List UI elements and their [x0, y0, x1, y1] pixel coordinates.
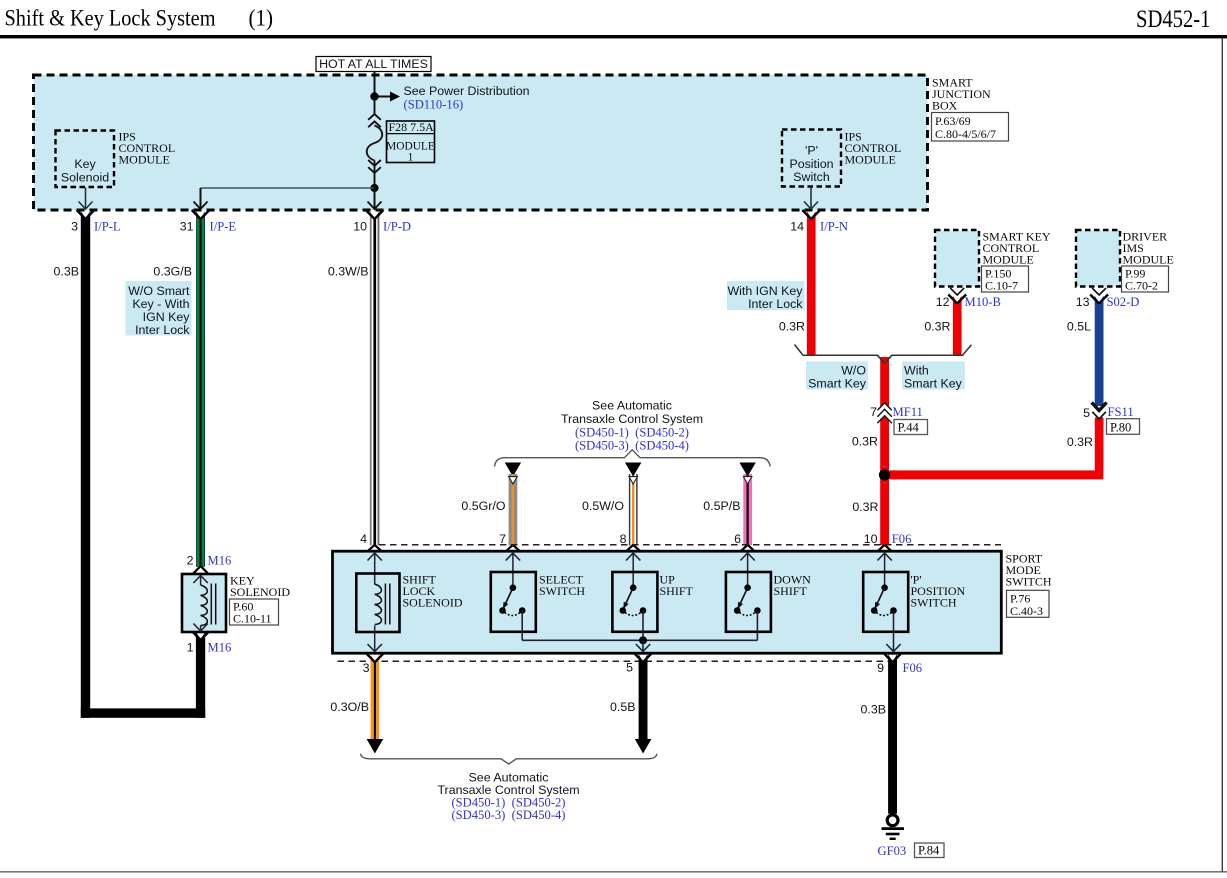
svg-text:0.5L: 0.5L [1067, 320, 1091, 334]
svg-text:0.3B: 0.3B [861, 703, 887, 717]
header rule [0, 35, 1227, 38]
svg-text:MODULE: MODULE [845, 153, 896, 167]
ground GF03 [882, 815, 905, 839]
pin 7 label MF11 [870, 405, 927, 435]
wire split bracket W/O-with smart key [795, 345, 972, 364]
svg-text:0.5B: 0.5B [610, 700, 636, 714]
svg-text:4: 4 [360, 532, 367, 546]
wire 0.3R I/P-N red [802, 210, 820, 356]
svg-text:Transaxle Control System: Transaxle Control System [561, 412, 703, 426]
svg-text:Inter Lock: Inter Lock [748, 297, 803, 311]
label DOWN SHIFT [774, 573, 812, 599]
connector FS11 chevrons [1092, 403, 1107, 420]
svg-text:SHIFT: SHIFT [774, 584, 808, 598]
svg-text:0.3R: 0.3R [924, 320, 950, 334]
svg-text:MF11: MF11 [893, 405, 923, 419]
label HOT AT ALL TIMES [316, 57, 431, 72]
key solenoid module (IPS) dashed box [56, 131, 115, 188]
connector MF11 chevrons [877, 403, 891, 423]
svg-text:MODULE: MODULE [983, 253, 1034, 267]
svg-text:14: 14 [790, 220, 804, 234]
svg-text:C.10-11: C.10-11 [233, 612, 272, 626]
svg-text:0.3R: 0.3R [779, 320, 805, 334]
svg-text:3: 3 [71, 220, 78, 234]
label fuse F28 7.5A MODULE 1 [386, 120, 435, 163]
chevron arrows into sport box top [368, 553, 892, 586]
svg-text:Inter Lock: Inter Lock [135, 323, 190, 337]
down shift switch component [726, 572, 771, 640]
svg-text:Switch: Switch [793, 170, 830, 184]
svg-text:Key - With: Key - With [132, 297, 189, 311]
wire 0.5P/B [739, 463, 755, 552]
sport mode switch box [333, 551, 1002, 653]
svg-text:BOX: BOX [932, 99, 958, 113]
wire hot feed vertical [374, 72, 376, 98]
svg-text:HOT AT ALL TIMES: HOT AT ALL TIMES [319, 57, 428, 71]
svg-text:6: 6 [734, 532, 741, 546]
svg-text:1: 1 [187, 641, 194, 655]
svg-text:Position: Position [789, 157, 833, 171]
svg-text:SD452-1: SD452-1 [1136, 6, 1211, 33]
svg-text:9: 9 [877, 661, 884, 675]
svg-text:3: 3 [363, 661, 370, 675]
svg-text:I/P-D: I/P-D [383, 220, 411, 234]
wire 0.5Gr/O [505, 463, 521, 552]
pin 31 label I/P-E [180, 220, 237, 234]
smart key control module box [935, 230, 1051, 293]
brace top transaxle [495, 450, 771, 467]
label With IGN Key Inter Lock [727, 281, 805, 311]
label With Smart Key [902, 362, 965, 391]
wire 0.3R FS11 vertical [1095, 418, 1104, 471]
node power junction [370, 92, 378, 100]
pin 3 label I/P-L [71, 220, 121, 234]
svg-text:Smart Key: Smart Key [808, 377, 867, 391]
svg-text:M16: M16 [208, 641, 232, 655]
svg-text:Solenoid: Solenoid [61, 171, 109, 185]
svg-text:SOLENOID: SOLENOID [230, 585, 290, 599]
svg-text:8: 8 [620, 532, 627, 546]
up shift switch component [612, 572, 657, 640]
svg-text:GF03: GF03 [878, 844, 907, 858]
wire 0.3R horizontal to FS11 [880, 470, 1103, 479]
label See Automatic Transaxle Control System top [561, 399, 703, 453]
svg-text:0.3O/B: 0.3O/B [330, 700, 369, 714]
node red junction [876, 467, 896, 483]
svg-text:0.5Gr/O: 0.5Gr/O [461, 499, 505, 513]
svg-text:SWITCH: SWITCH [911, 596, 957, 610]
svg-text:10: 10 [353, 220, 367, 234]
svg-text:F06: F06 [892, 532, 912, 546]
wire 0.3B I/P-L black loop [77, 210, 210, 718]
svg-text:12: 12 [936, 295, 950, 309]
wire 0.3B ground black [884, 653, 902, 814]
label GF03 P.84 [878, 843, 945, 858]
svg-text:I/P-L: I/P-L [94, 220, 121, 234]
connector dashed line below sport box [338, 660, 897, 662]
svg-text:5: 5 [1083, 406, 1090, 420]
label UP SHIFT [660, 573, 694, 599]
fuse F28 7.5A symbol [367, 97, 382, 189]
wire branch to I/P-E [194, 188, 375, 209]
svg-text:C.70-2: C.70-2 [1125, 279, 1158, 293]
label See Automatic Transaxle Control System bottom [437, 771, 579, 823]
svg-text:See Power Distribution: See Power Distribution [404, 84, 530, 98]
wire 0.3W/B I/P-D white [366, 210, 384, 552]
svg-text:IGN Key: IGN Key [143, 310, 191, 324]
svg-text:0.3R: 0.3R [1067, 435, 1093, 449]
svg-text:31: 31 [180, 220, 194, 234]
svg-text:F06: F06 [903, 661, 923, 675]
label W/O Smart Key - With IGN Key Inter Lock [126, 281, 192, 337]
svg-text:S02-D: S02-D [1107, 295, 1140, 309]
svg-text:FS11: FS11 [1108, 405, 1134, 419]
right page border [1222, 38, 1223, 871]
svg-text:(SD450-1) (SD450-2): (SD450-1) (SD450-2) [575, 426, 689, 440]
brace bottom transaxle [361, 754, 658, 764]
svg-text:(SD110-16): (SD110-16) [404, 98, 464, 112]
svg-text:W/O Smart: W/O Smart [128, 284, 190, 298]
svg-text:0.3B: 0.3B [54, 265, 80, 279]
label SHIFT LOCK SOLENOID [403, 573, 463, 610]
wire 0.3R merged main red [877, 355, 892, 551]
svg-text:Smart Key: Smart Key [904, 377, 963, 391]
svg-text:W/O: W/O [841, 364, 866, 378]
label SMART JUNCTION BOX [932, 76, 1009, 142]
label IPS CONTROL MODULE right [845, 130, 902, 167]
pin 12 label M10-B [936, 295, 1001, 309]
wire 0.5B black [634, 653, 652, 753]
wire 0.5L S02-D navy [1090, 288, 1108, 406]
select switch component [491, 572, 536, 640]
key solenoid component box [182, 554, 231, 633]
svg-text:(SD450-3) (SD450-4): (SD450-3) (SD450-4) [451, 808, 565, 822]
wire 0.5W/O [625, 463, 641, 552]
svg-text:With: With [904, 364, 929, 378]
node fuse output junction [370, 184, 378, 192]
P position switch module dashed box [782, 130, 841, 187]
svg-text:P.84: P.84 [918, 844, 940, 858]
smart junction box SJB [34, 75, 928, 210]
svg-text:13: 13 [1076, 295, 1090, 309]
svg-text:With IGN Key: With IGN Key [727, 284, 803, 298]
svg-text:C.10-7: C.10-7 [985, 279, 1018, 293]
pin 9 label F06 [877, 661, 922, 675]
svg-text:0.3R: 0.3R [852, 435, 878, 449]
svg-text:C.40-3: C.40-3 [1010, 604, 1043, 618]
label W/O Smart Key [806, 362, 868, 391]
svg-text:0.5W/O: 0.5W/O [582, 499, 624, 513]
wire fuse to I/P-D [368, 188, 382, 209]
svg-text:P.63/69: P.63/69 [935, 114, 971, 128]
svg-text:0.3W/B: 0.3W/B [328, 265, 369, 279]
label SPORT MODE SWITCH [1006, 552, 1052, 619]
wire P position switch to I/P-N [804, 187, 818, 210]
wire 0.3G/B I/P-E green [192, 210, 210, 573]
svg-text:SOLENOID: SOLENOID [403, 596, 463, 610]
label IPS CONTROL MODULE left [119, 130, 176, 167]
svg-text:Key: Key [74, 157, 96, 171]
wire common switch bus [522, 636, 757, 651]
svg-text:See Automatic: See Automatic [592, 399, 672, 413]
svg-text:1: 1 [408, 152, 414, 164]
pin 5 label FS11 [1083, 405, 1139, 435]
svg-text:MODULE: MODULE [1123, 253, 1174, 267]
pin 10 label I/P-D [353, 220, 411, 234]
svg-text:M16: M16 [208, 554, 232, 568]
svg-text:0.3G/B: 0.3G/B [153, 265, 192, 279]
connector dashed line above sport box [379, 544, 1001, 546]
wire 0.3R M10-B red [948, 288, 966, 356]
svg-text:SWITCH: SWITCH [539, 584, 585, 598]
svg-text:0.3R: 0.3R [852, 500, 878, 514]
title Shift & Key Lock System [5, 5, 274, 31]
svg-text:I/P-N: I/P-N [820, 220, 848, 234]
svg-text:F28 7.5A: F28 7.5A [389, 120, 435, 134]
svg-text:MODULE: MODULE [119, 153, 170, 167]
pin 14 label I/P-N [790, 220, 848, 234]
svg-text:2: 2 [187, 554, 194, 568]
svg-text:Shift & Key Lock System: Shift & Key Lock System [5, 5, 216, 31]
bottom page border [0, 871, 1227, 872]
svg-text:5: 5 [626, 661, 633, 675]
label SELECT SWITCH [539, 573, 585, 599]
svg-text:P.80: P.80 [1110, 421, 1131, 435]
pin 13 label S02-D [1076, 295, 1140, 309]
svg-text:7: 7 [499, 532, 506, 546]
shift lock solenoid component [356, 574, 399, 652]
pin 1 label M16 [187, 641, 232, 655]
svg-text:SWITCH: SWITCH [1006, 575, 1052, 589]
P position switch component [863, 572, 908, 652]
label P POSITION SWITCH [911, 573, 966, 610]
svg-text:10: 10 [864, 532, 878, 546]
svg-text:0.5P/B: 0.5P/B [703, 499, 740, 513]
wire key solenoid to I/P-L [79, 188, 93, 210]
wire see power distribution arrow [378, 92, 400, 102]
label KEY SOLENOID [230, 574, 291, 626]
label See Power Distribution [404, 84, 530, 112]
svg-text:I/P-E: I/P-E [210, 220, 237, 234]
wire 0.3O/B orange [366, 653, 384, 753]
svg-text:7: 7 [870, 405, 877, 419]
svg-text:'P': 'P' [805, 144, 818, 158]
svg-text:P.44: P.44 [898, 421, 920, 435]
pin 10 label F06 [864, 532, 912, 546]
svg-text:SHIFT: SHIFT [660, 584, 694, 598]
svg-text:(1): (1) [249, 5, 274, 31]
svg-text:C.80-4/5/6/7: C.80-4/5/6/7 [935, 127, 996, 141]
svg-text:M10-B: M10-B [965, 295, 1001, 309]
driver IMS module box [1076, 230, 1174, 293]
